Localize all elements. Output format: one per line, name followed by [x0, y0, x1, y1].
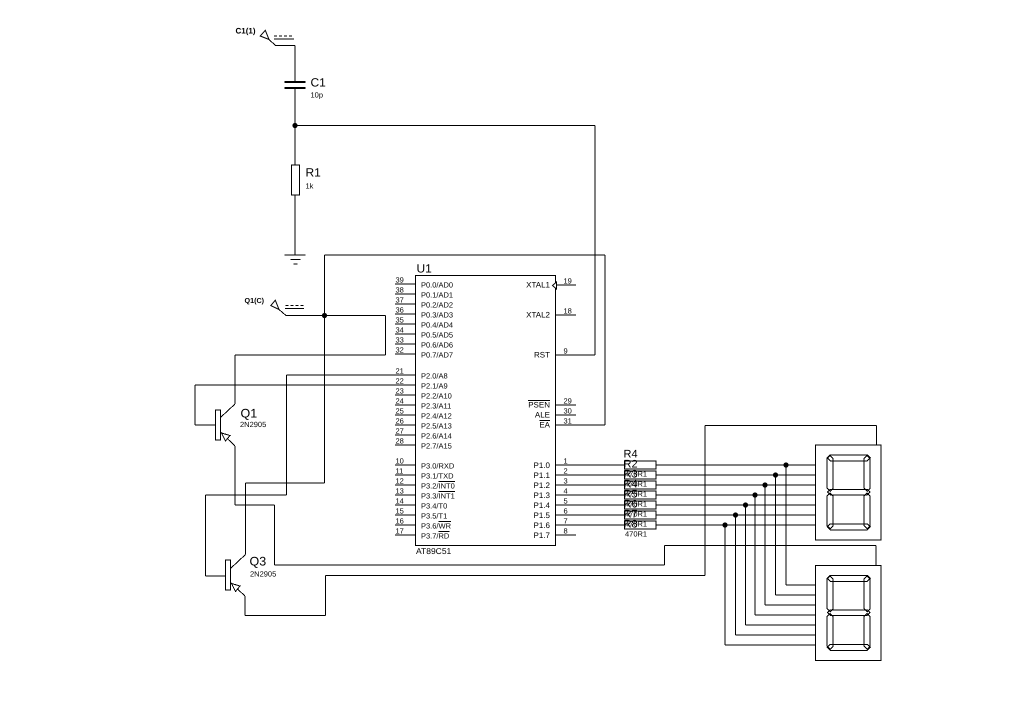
svg-text:29: 29	[564, 397, 572, 406]
pin 38 stub (P0.1/AD1)	[395, 293, 416, 295]
svg-text:470R1: 470R1	[625, 480, 647, 489]
pin 29 stub (PSEN)	[556, 404, 577, 406]
pin 8 stub (P1.7)	[556, 534, 577, 536]
wire Q1 emitter down	[234, 446, 236, 505]
wire P1.4 into display2	[746, 624, 816, 626]
pin 28 stub (P2.7/A15)	[395, 444, 416, 446]
wire P1.2 down to display2	[764, 485, 766, 605]
node junction P1.3 branch	[752, 492, 757, 497]
svg-text:23: 23	[396, 387, 404, 396]
wire: terminal C1(1) to C1	[269, 40, 276, 46]
svg-text:13: 13	[396, 487, 404, 496]
wire EA pin stub	[555, 424, 605, 426]
svg-text:P2.3/A11: P2.3/A11	[421, 402, 451, 411]
pin 6 wire (P1.5) to resistor and display1	[556, 514, 816, 516]
wire Q3 emitter down	[244, 596, 246, 616]
svg-text:C1(1): C1(1)	[236, 27, 256, 36]
pin 12 stub (P3.2/INT0)	[395, 484, 416, 486]
svg-text:16: 16	[396, 517, 404, 526]
wire: terminal Q1(C) diagonal	[279, 310, 286, 316]
svg-text:P0.3/AD3: P0.3/AD3	[421, 311, 453, 320]
svg-text:P0.0/AD0: P0.0/AD0	[421, 281, 453, 290]
pin 16 stub (P3.6/WR)	[395, 524, 416, 526]
wire y495 horizontal	[206, 494, 287, 496]
IC U1 AT89C51 body	[416, 276, 556, 546]
svg-text:P2.6/A14: P2.6/A14	[421, 432, 452, 441]
resistor box row 1	[625, 461, 657, 469]
svg-text:7: 7	[564, 517, 568, 526]
svg-text:19: 19	[564, 277, 572, 286]
svg-text:R1: R1	[306, 166, 322, 180]
pin 14 stub (P3.4/T0)	[395, 504, 416, 506]
pin 30 stub (ALE)	[556, 414, 577, 416]
svg-text:24: 24	[396, 397, 404, 406]
wire y505 right	[235, 504, 275, 506]
wire up to pin21 row	[286, 375, 288, 495]
transistor Q1	[216, 404, 236, 446]
svg-text:470R1: 470R1	[625, 490, 647, 499]
svg-text:P3.7/RD: P3.7/RD	[421, 532, 450, 541]
terminal C1(1) solid mark	[274, 38, 294, 40]
resistor box row 6	[625, 511, 657, 519]
pin 33 stub (P0.6/AD6)	[395, 343, 416, 345]
svg-text:37: 37	[396, 296, 404, 305]
wire RST pin stub	[555, 354, 595, 356]
wire Q3 base stub	[206, 575, 226, 577]
wire P1.0 into display2	[786, 584, 816, 586]
pin 25 stub (P2.4/A12)	[395, 414, 416, 416]
wire up to y425	[704, 426, 706, 576]
svg-text:P1.6: P1.6	[534, 521, 551, 530]
wire node to RST (vertical)	[594, 126, 596, 356]
wire return left at y355	[235, 354, 386, 356]
wire P1.3 down to display2	[754, 495, 756, 615]
svg-text:2N2905: 2N2905	[240, 420, 266, 429]
svg-text:22: 22	[396, 377, 404, 386]
overline RD	[439, 531, 450, 533]
wire down to Q1 collector	[234, 355, 236, 404]
wire junction down to Q3 collector	[324, 316, 326, 484]
wire left toward Q3 collector	[246, 482, 325, 484]
pin 15 stub (P3.5/T1)	[395, 514, 416, 516]
svg-text:26: 26	[396, 417, 404, 426]
svg-text:470R1: 470R1	[625, 510, 647, 519]
terminal symbol Q1(C) triangle	[271, 300, 279, 309]
overline INT0	[439, 481, 455, 483]
svg-text:33: 33	[396, 336, 404, 345]
node junction P1.4 branch	[743, 502, 748, 507]
wire pin 21 to Q3 base	[287, 374, 416, 376]
svg-text:18: 18	[564, 307, 572, 316]
pin 36 stub (P0.3/AD3)	[395, 313, 416, 315]
svg-text:PSEN: PSEN	[528, 401, 550, 410]
svg-text:9: 9	[564, 347, 568, 356]
svg-text:P2.0/A8: P2.0/A8	[421, 372, 448, 381]
pin 3 wire (P1.2) to resistor and display1	[556, 484, 816, 486]
pin 7 wire (P1.6) to resistor and display1	[556, 524, 816, 526]
svg-text:P2.7/A15: P2.7/A15	[421, 442, 452, 451]
wire into display2 top	[875, 546, 877, 566]
svg-text:34: 34	[396, 326, 404, 335]
svg-text:XTAL2: XTAL2	[526, 311, 550, 320]
svg-text:39: 39	[396, 276, 404, 285]
wire Q1(C) horizontal to corner	[286, 315, 386, 317]
svg-text:ALE: ALE	[535, 411, 550, 420]
svg-text:EA: EA	[539, 421, 550, 430]
svg-text:6: 6	[564, 507, 568, 516]
wire P1.5 down to display2	[735, 515, 737, 635]
terminal C1(1) dashed mark	[274, 35, 294, 37]
svg-text:35: 35	[396, 316, 404, 325]
transistor Q3	[226, 555, 246, 597]
wire y425 right to display1	[705, 425, 877, 427]
svg-text:P0.7/AD7: P0.7/AD7	[421, 351, 453, 360]
svg-text:U1: U1	[417, 262, 433, 276]
svg-text:38: 38	[396, 286, 404, 295]
svg-text:10p: 10p	[311, 91, 324, 100]
svg-text:470R1: 470R1	[625, 520, 647, 529]
wire Q1 base stub	[195, 424, 216, 426]
svg-text:P2.4/A12: P2.4/A12	[421, 412, 452, 421]
XTAL1 clock arrow	[553, 282, 557, 289]
svg-text:AT89C51: AT89C51	[416, 546, 452, 556]
display DS2 digit segments	[827, 575, 870, 650]
svg-text:P1.7: P1.7	[534, 531, 551, 540]
svg-text:21: 21	[396, 367, 404, 376]
svg-text:P2.5/A13: P2.5/A13	[421, 422, 452, 431]
svg-text:32: 32	[396, 346, 404, 355]
svg-text:17: 17	[396, 527, 404, 536]
pin 24 stub (P2.3/A11)	[395, 404, 416, 406]
svg-text:470R1: 470R1	[625, 470, 647, 479]
svg-text:P3.5/T1: P3.5/T1	[421, 512, 447, 521]
7-segment display DS1 body	[816, 445, 882, 540]
svg-text:P3.6/WR: P3.6/WR	[421, 522, 452, 531]
pin 17 stub (P3.7/RD)	[395, 534, 416, 536]
wire y575 right	[326, 575, 706, 577]
ground	[285, 255, 306, 264]
svg-text:P0.6/AD6: P0.6/AD6	[421, 341, 453, 350]
svg-text:Q1: Q1	[241, 407, 258, 421]
svg-text:P2.1/A9: P2.1/A9	[421, 382, 448, 391]
svg-text:P0.5/AD5: P0.5/AD5	[421, 331, 453, 340]
svg-text:30: 30	[564, 407, 572, 416]
svg-text:3: 3	[564, 477, 568, 486]
wire Q1 base up to pin22 row	[194, 385, 196, 425]
wire node to RST (horizontal)	[295, 125, 595, 127]
svg-text:P1.0: P1.0	[534, 461, 551, 470]
svg-text:15: 15	[396, 507, 404, 516]
node junction at C1/R1/RST	[292, 123, 297, 128]
pin 18 stub (XTAL2)	[556, 314, 577, 316]
display DS1 digit segments	[827, 455, 870, 530]
svg-text:28: 28	[396, 437, 404, 446]
overline PSEN	[528, 400, 550, 402]
terminal Q1(C) dashed mark	[286, 305, 305, 307]
wire down to P0 row level	[385, 316, 387, 356]
svg-text:31: 31	[564, 417, 572, 426]
wire EA loop right vertical	[604, 255, 606, 425]
wire P1.1 down to display2	[775, 475, 777, 595]
node junction P1.5 branch	[733, 512, 738, 517]
resistor box row 4	[625, 491, 657, 499]
svg-text:2: 2	[564, 467, 568, 476]
node junction on Q1(C) net	[322, 313, 327, 318]
pin 13 stub (P3.3/INT1)	[395, 494, 416, 496]
resistor box row 3	[625, 481, 657, 489]
resistor R1	[292, 165, 300, 195]
overline INT1	[439, 491, 455, 493]
svg-text:P0.2/AD2: P0.2/AD2	[421, 301, 453, 310]
svg-text:P3.0/RXD: P3.0/RXD	[421, 462, 455, 471]
svg-text:P3.1/TXD: P3.1/TXD	[421, 472, 454, 481]
pin 19 stub (XTAL1)	[556, 284, 577, 286]
pin 34 stub (P0.5/AD5)	[395, 333, 416, 335]
svg-text:C1: C1	[311, 76, 327, 90]
wire down to y565	[274, 505, 276, 565]
svg-text:P1.5: P1.5	[534, 511, 551, 520]
svg-text:2N2905: 2N2905	[250, 570, 276, 579]
wire down to Q3 collector	[245, 483, 247, 555]
resistor box row 5	[625, 501, 657, 509]
resistor box row 2	[625, 471, 657, 479]
wire P1.5 into display2	[736, 634, 816, 636]
svg-text:P1.4: P1.4	[534, 501, 551, 510]
wire P1.6 down to display2	[724, 525, 726, 645]
pin 2 wire (P1.1) to resistor and display1	[556, 474, 816, 476]
pin 35 stub (P0.4/AD4)	[395, 323, 416, 325]
wire P1.1 into display2	[776, 594, 816, 596]
svg-text:XTAL1: XTAL1	[526, 281, 550, 290]
svg-text:12: 12	[396, 477, 404, 486]
pin 1 wire (P1.0) to resistor and display1	[556, 464, 816, 466]
svg-text:Q3: Q3	[250, 555, 267, 569]
svg-text:8: 8	[564, 527, 568, 536]
terminal symbol C1(1) triangle	[260, 30, 269, 39]
svg-text:27: 27	[396, 427, 404, 436]
node junction P1.2 branch	[762, 482, 767, 487]
pin 11 stub (P3.1/TXD)	[395, 474, 416, 476]
wire EA loop top horizontal	[325, 254, 606, 256]
svg-text:P3.3/INT1: P3.3/INT1	[421, 492, 455, 501]
wire into display1 top	[876, 426, 878, 446]
node junction P1.6 branch	[722, 522, 727, 527]
svg-text:10: 10	[396, 457, 404, 466]
svg-text:P0.4/AD4: P0.4/AD4	[421, 321, 453, 330]
node junction P1.1 branch	[773, 472, 778, 477]
wire P1.6 into display2	[725, 644, 816, 646]
svg-text:11: 11	[396, 467, 404, 476]
overline EA	[540, 420, 551, 422]
wire P1.0 down to display2	[785, 465, 787, 585]
wire C1 to node/R1	[294, 89, 296, 165]
wire up to y545	[664, 546, 666, 566]
7-segment display DS2 body	[816, 566, 882, 661]
svg-text:P3.4/T0: P3.4/T0	[421, 502, 447, 511]
wire up to y575	[325, 576, 327, 616]
svg-text:470R1: 470R1	[625, 530, 647, 539]
svg-text:P2.2/A10: P2.2/A10	[421, 392, 452, 401]
node junction P1.0 branch	[783, 462, 788, 467]
wire R1 to ground	[294, 195, 296, 255]
svg-text:5: 5	[564, 497, 568, 506]
svg-text:P1.1: P1.1	[534, 471, 551, 480]
overline WR	[439, 521, 452, 523]
pin 5 wire (P1.4) to resistor and display1	[556, 504, 816, 506]
pin 10 stub (P3.0/RXD)	[395, 464, 416, 466]
wire y545 right to display2	[665, 545, 877, 547]
wire P1.4 down to display2	[745, 505, 747, 625]
svg-text:P1.3: P1.3	[534, 491, 551, 500]
wire pin 22 to Q1 base	[195, 384, 415, 386]
pin 4 wire (P1.3) to resistor and display1	[556, 494, 816, 496]
svg-text:25: 25	[396, 407, 404, 416]
pin 39 stub (P0.0/AD0)	[395, 283, 416, 285]
wire junction up to EA loop	[324, 255, 326, 316]
wire Q3 base up to y495	[205, 495, 207, 576]
svg-text:36: 36	[396, 306, 404, 315]
svg-text:P1.2: P1.2	[534, 481, 551, 490]
svg-text:RST: RST	[534, 351, 550, 360]
wire P1.2 into display2	[765, 604, 816, 606]
resistor box row 7	[625, 521, 657, 529]
pin 27 stub (P2.6/A14)	[395, 434, 416, 436]
terminal Q1(C) solid mark	[285, 308, 304, 310]
svg-text:P0.1/AD1: P0.1/AD1	[421, 291, 453, 300]
wire P1.3 into display2	[755, 614, 816, 616]
svg-text:1: 1	[564, 457, 568, 466]
capacitor C1	[285, 81, 306, 83]
pin 32 stub (P0.7/AD7)	[395, 353, 416, 355]
svg-text:14: 14	[396, 497, 404, 506]
svg-text:Q1(C): Q1(C)	[245, 296, 265, 305]
pin 26 stub (P2.5/A13)	[395, 424, 416, 426]
svg-text:P3.2/INT0: P3.2/INT0	[421, 482, 455, 491]
wire y615 right	[245, 615, 326, 617]
svg-text:1k: 1k	[306, 182, 314, 191]
pin 23 stub (P2.2/A10)	[395, 394, 416, 396]
svg-text:470R1: 470R1	[625, 500, 647, 509]
wire y565 right	[275, 564, 665, 566]
svg-text:4: 4	[564, 487, 568, 496]
pin 37 stub (P0.2/AD2)	[395, 303, 416, 305]
